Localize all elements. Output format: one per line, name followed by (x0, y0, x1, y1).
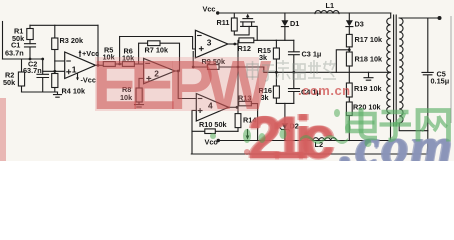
node R4 junction (53, 70, 56, 73)
Vcc terminal bottom (205, 137, 221, 146)
resistor R11 (217, 13, 250, 35)
resistor R13 (238, 93, 258, 140)
diode D3 (346, 13, 364, 34)
node op1 feedback (97, 64, 100, 67)
node R9-R14 column (237, 66, 240, 69)
inductor L1 (315, 1, 339, 13)
wire R6 to op2 (134, 63, 143, 65)
resistor R4 (52, 71, 86, 95)
watermark 21ic (248, 108, 325, 168)
watermark green smudges (0, 0, 454, 161)
output terminal dot (438, 16, 442, 20)
wire left edge vertical (2, 22, 4, 60)
watermark left pink sliver (0, 98, 6, 161)
wire Vcc bottom rail (218, 140, 390, 142)
resistor R14 (235, 44, 257, 131)
op-amp U4 (196, 94, 228, 122)
resistor R17 (346, 34, 383, 52)
wire coupling column up (119, 37, 121, 65)
resistor R9 feedback op3 (192, 52, 264, 70)
wire op2 output (175, 70, 178, 72)
watermark .com.cn small red (298, 83, 351, 98)
op-amp U1 (65, 52, 96, 79)
capacitor C1 (5, 41, 36, 60)
node divider tap (348, 48, 351, 51)
node C2 junction (41, 58, 44, 61)
wire top supply rail (218, 12, 391, 14)
resistor R3 (52, 25, 84, 61)
resistor R7 feedback loop (139, 41, 180, 71)
op-amp U3 (195, 30, 227, 58)
wien block bottom (276, 102, 294, 104)
arrow down to rail (246, 130, 250, 140)
node R5 R6 junction (118, 63, 121, 66)
wire op4 noninverting loop (192, 110, 196, 154)
wire outer bottom rail (191, 153, 427, 155)
op-amp U2 (144, 58, 175, 83)
watermark green char wang (418, 111, 449, 142)
wire top rail stage1 (30, 24, 98, 26)
transformer T1 core (394, 15, 397, 126)
watermark green char dian (348, 108, 378, 138)
wire noninverting input op1 (43, 70, 65, 72)
+Vcc arrow op1 (79, 49, 100, 58)
resistor R20 (346, 102, 381, 141)
resistor R16 (259, 72, 280, 103)
resistor R12 (238, 38, 277, 53)
wire mid reference rail (264, 67, 391, 72)
wire op2 to op4 column (178, 71, 196, 99)
resistor R15 (258, 40, 280, 72)
resistor R2 (3, 59, 25, 92)
transistor Q1 mosfet (241, 14, 258, 41)
right page edge line (450, 16, 452, 123)
resistor R5 (103, 46, 116, 67)
wire op4 output (229, 106, 239, 108)
watermark red dot (244, 149, 250, 155)
capacitor C4 (289, 72, 321, 103)
watermark EEPW band (95, 57, 259, 111)
wire R5-R6 junction (115, 63, 122, 65)
wire op1 feedback column (97, 25, 99, 65)
watermark green char zi (380, 112, 412, 140)
wire tap to mid rail (336, 50, 349, 73)
ground mid rail (364, 72, 373, 80)
wire mid node (3, 58, 43, 60)
ground op2 (135, 105, 144, 107)
wire secondary top output (399, 17, 439, 19)
transformer T1 primary winding (387, 13, 391, 141)
node C1 junction (29, 58, 32, 61)
node op2 output (177, 70, 180, 73)
watermark gray chinese row (247, 60, 336, 81)
node R15 bottom (275, 71, 278, 74)
capacitor C2 (23, 59, 49, 92)
diode D1 (281, 13, 299, 40)
node C3 bottom (292, 71, 295, 74)
resistor R1 (12, 25, 33, 43)
watermark EEPW text (92, 50, 262, 120)
wien block top (276, 39, 294, 41)
capacitor C3 (289, 40, 322, 72)
watermark .com gray italic (340, 119, 454, 173)
wire bottom-left (22, 91, 58, 93)
resistor R10 (192, 120, 238, 134)
wire inverting input op1 (55, 61, 65, 71)
resistor R18 (346, 52, 383, 83)
node op3 output (233, 43, 236, 46)
inductor L2 (307, 138, 336, 149)
Vcc terminal top (203, 5, 220, 15)
-Vcc arrow op1 (76, 74, 96, 85)
wire secondary bottom (399, 123, 428, 131)
wire long top link to op3 (120, 37, 196, 50)
ground left (54, 92, 62, 97)
capacitor C5 (422, 18, 449, 154)
resistor R19 (346, 83, 382, 102)
wire op1 output (96, 64, 104, 66)
node op4 output (236, 106, 239, 109)
zener D2 (280, 103, 299, 140)
resistor R6 (122, 47, 135, 67)
wire op3 output (228, 43, 238, 45)
transformer T1 secondary winding (399, 18, 403, 123)
resistor R8 (120, 78, 144, 104)
